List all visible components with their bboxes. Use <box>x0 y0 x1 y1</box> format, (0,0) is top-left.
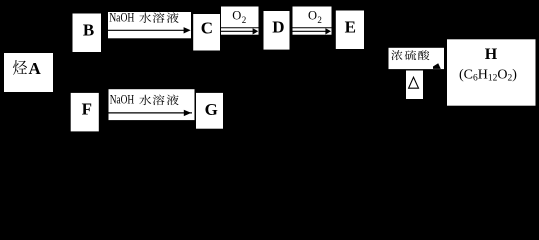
box H with formula C6H12O2 <box>447 39 536 105</box>
svg-text:NaOH: NaOH <box>109 11 134 25</box>
arrowhead tail toward H <box>433 63 441 69</box>
svg-text:G: G <box>205 100 218 119</box>
svg-text:F: F <box>82 99 92 118</box>
box hydrocarbon A <box>4 53 53 92</box>
svg-text:H: H <box>485 46 498 63</box>
arrow D to E <box>293 28 332 34</box>
svg-text:E: E <box>345 18 356 37</box>
box D <box>264 11 290 50</box>
svg-text:D: D <box>272 17 284 36</box>
arrow B to C <box>108 27 191 33</box>
reagent label O2 (D to E) <box>292 6 332 35</box>
svg-text:NaOH: NaOH <box>110 92 135 106</box>
svg-text:B: B <box>83 21 94 40</box>
svg-text:C: C <box>201 18 213 37</box>
svg-text:2: 2 <box>317 15 322 25</box>
reagent label NaOH aqueous solution (B to C) <box>108 11 192 39</box>
svg-text:A: A <box>29 59 42 78</box>
box B <box>73 14 102 53</box>
arrow F to G <box>109 110 193 116</box>
heat condition label (delta) <box>406 71 423 100</box>
arrow C to D <box>221 28 258 34</box>
box C <box>193 14 220 51</box>
reagent label O2 (C to D) <box>221 6 260 35</box>
svg-text:2: 2 <box>242 15 247 25</box>
box F <box>71 93 99 131</box>
reagent label concentrated sulfuric acid <box>388 47 445 69</box>
box E <box>336 11 364 50</box>
box G <box>196 93 223 129</box>
svg-text:O: O <box>232 8 241 22</box>
reagent label NaOH aqueous solution (F to G) <box>108 89 195 121</box>
svg-text:O: O <box>308 9 317 23</box>
